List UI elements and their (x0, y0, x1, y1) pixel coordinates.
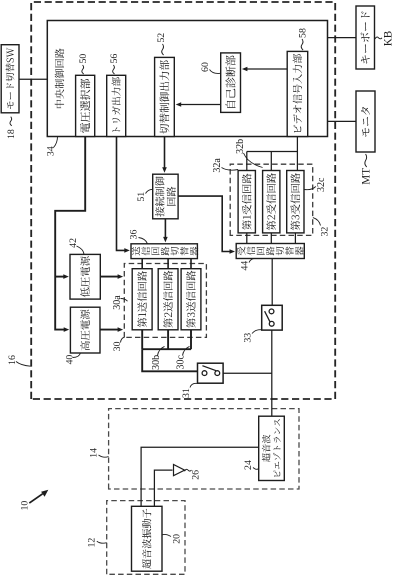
tilde 58 (301, 39, 303, 50)
wire connection-control to RX switcher (178, 196, 232, 251)
tilde 52 (162, 44, 164, 55)
leader 31 (190, 383, 197, 387)
switch 33 box (262, 305, 283, 330)
svg-text:60: 60 (200, 62, 211, 72)
leader 30a (121, 299, 128, 302)
wire video-input to self-diagnosis (245, 68, 288, 70)
dashed box 32 (reception circuits group) (230, 164, 313, 235)
arrowhead into TX switcher top edge (124, 248, 130, 253)
svg-text:32c: 32c (316, 177, 327, 192)
label 接続制御回路 line2 (166, 187, 175, 206)
wire power bus branch to low-voltage supply (55, 276, 66, 278)
wire TX circuit 2 output (167, 330, 169, 349)
TX circuit 3 box 30c (181, 269, 201, 330)
arrowhead into RX switcher top edge (230, 249, 236, 254)
wire vibrator echo output (154, 470, 172, 506)
leader 24 (253, 468, 259, 470)
label 第3送信回路 (TX circuit 3) (186, 271, 196, 328)
label 第3受信回路 (RX circuit 3) (290, 173, 300, 230)
label 受信回路切替器 (RX circuit switcher, vertical) (237, 247, 246, 256)
svg-text:10: 10 (19, 501, 30, 511)
leader 36 (139, 238, 148, 244)
high voltage supply box 40 (70, 307, 100, 353)
label 接続制御回路 line1 (155, 177, 164, 217)
switch 31 box (198, 363, 224, 383)
leader 12 (97, 541, 107, 543)
svg-text:12: 12 (87, 538, 98, 548)
wire RX trunk branch to RX circuit 3 (296, 152, 298, 171)
wire RX trunk branch to RX circuit 1 (246, 152, 248, 171)
RX circuit switcher box 44 (236, 244, 304, 259)
svg-text:30a: 30a (112, 295, 123, 310)
label キーボード (keyboard) (361, 12, 370, 64)
dashed box 12 (probe unit) (107, 501, 185, 575)
label 第1受信回路 (RX circuit 1) (242, 174, 252, 230)
svg-text:20: 20 (172, 534, 183, 544)
wire self-diagnosis to switch-control-output (179, 104, 221, 106)
label 切替制御出力部 (switch control output) (159, 60, 169, 134)
output arrow 26 (open triangle) (174, 465, 185, 476)
label 低圧電源 (low voltage supply) (80, 256, 90, 297)
arrowhead into dashed box 30 (from low-V) (118, 274, 124, 279)
wire switch 33 to piezo transformer (271, 330, 273, 416)
wire RX circuit 2 to RX switcher (270, 233, 272, 244)
svg-text:16: 16 (7, 355, 18, 365)
wire switch 31 to probe line junction (223, 372, 272, 374)
label 超音波 (ultrasonic) line1 (262, 435, 271, 462)
svg-text:50: 50 (78, 54, 89, 64)
leader 30 (121, 337, 125, 342)
leader 60 (210, 70, 221, 74)
wire switch-control-output to connection-control (164, 137, 166, 171)
ultrasonic piezo transformer box 24 (259, 416, 285, 480)
leader 32c (305, 187, 316, 190)
wire TX output connector (142, 348, 191, 350)
leader 40 (73, 353, 81, 358)
dashed box 30 (transmission circuits group) (124, 264, 206, 338)
leader 32 (313, 218, 321, 226)
label ピエゾトランス (piezo transformer) line2 (273, 419, 281, 477)
trigger output box 56 (107, 75, 126, 136)
TX circuit switcher box 36 (131, 244, 197, 259)
arrowhead into switch-control-output (176, 102, 182, 107)
monitor box MT (356, 91, 375, 152)
arrowhead into high-voltage supply top (64, 327, 69, 332)
wire RX switcher to switch 33 (271, 259, 273, 306)
wire video-input to RX circuits trunk (247, 137, 298, 152)
svg-text:14: 14 (89, 448, 100, 458)
connection control circuit box 51 (153, 174, 178, 219)
leader 16 (16, 362, 31, 367)
video signal input box 58 (287, 51, 308, 136)
keyboard box KB (356, 6, 375, 69)
svg-text:26: 26 (191, 470, 202, 480)
switch control output box 52 (155, 57, 175, 136)
tilde MT (365, 154, 367, 167)
label モニタ (monitor) (361, 107, 370, 137)
svg-text:32a: 32a (212, 158, 223, 173)
svg-text:30: 30 (112, 341, 123, 351)
svg-text:30c: 30c (176, 355, 187, 370)
TX circuit 1 box 30a (132, 269, 152, 330)
label 電圧選択部 (voltage selector) (80, 79, 90, 133)
svg-text:MT: MT (361, 168, 373, 185)
wire central control to keyboard (328, 37, 357, 39)
leader 30c (183, 346, 190, 355)
leader 32a (222, 168, 239, 171)
TX circuit 2 box 30b (158, 269, 178, 330)
figure arrow 10 (29, 494, 42, 503)
dashed box 16 (main unit) (31, 2, 335, 399)
tilde 50 (82, 65, 84, 74)
leader 20 (162, 534, 171, 536)
mode switch box 18 (1, 45, 19, 113)
low voltage supply box 42 (70, 254, 100, 299)
label 超音波振動子 (ultrasonic vibrator) (142, 509, 151, 569)
label 第2受信回路 (RX circuit 2) (266, 173, 276, 230)
svg-text:58: 58 (297, 28, 308, 38)
RX circuit 3 box 32c (287, 171, 304, 233)
wire TX outputs to switch 31 (142, 349, 197, 371)
wire TX switcher to TX circuit 1 (141, 259, 143, 269)
label 送信回路切替器 (TX circuit switcher, vertical) (132, 247, 141, 256)
leader 42 (77, 246, 85, 254)
wire connection-control to TX switcher (164, 219, 166, 240)
wire high-voltage supply to TX group (100, 329, 121, 331)
switch 33 contacts and blade (269, 309, 274, 314)
wire mode-SW to central control (19, 78, 47, 80)
tilde 26 (185, 469, 192, 471)
label トリガ出力部 (trigger output) (112, 77, 121, 132)
wire piezo transformer to vibrator (141, 447, 259, 506)
svg-text:33: 33 (243, 333, 254, 343)
wire voltage-select power bus (55, 137, 85, 330)
leader 51 (146, 189, 153, 193)
wire TX switcher to TX circuit 2 (167, 259, 169, 269)
leader 32b (244, 153, 263, 168)
svg-text:24: 24 (243, 460, 254, 470)
leader 14 (99, 455, 109, 457)
svg-text:34: 34 (46, 146, 57, 156)
leader 44 (249, 258, 256, 262)
svg-text:40: 40 (65, 355, 76, 365)
svg-text:52: 52 (156, 33, 167, 43)
label モード切替SW (mode switch) (6, 48, 15, 109)
arrowhead into connection-control right edge (162, 167, 167, 173)
switch 31 contacts and blade (202, 371, 207, 376)
wire central control to monitor (328, 120, 357, 122)
wire TX circuit 1 output (141, 330, 143, 349)
ultrasonic vibrator box 20 (132, 506, 163, 571)
tilde 18 (10, 117, 12, 126)
svg-text:32: 32 (319, 227, 330, 237)
label 自己診断部 (self-diagnosis) (225, 55, 235, 107)
leader 34 (54, 137, 58, 148)
label 第1送信回路 (TX circuit 1) (137, 271, 147, 327)
leader 33 (252, 330, 262, 334)
central control circuit box 34 (47, 21, 327, 137)
RX circuit 1 box 32a (238, 171, 255, 233)
label 第2送信回路 (TX circuit 2) (163, 271, 173, 328)
dashed box 14 (probe connector unit) (109, 409, 299, 489)
self-diagnosis box 60 (221, 53, 241, 112)
wire RX circuit 1 to RX switcher (246, 233, 248, 244)
arrowhead into low-voltage supply top (63, 274, 69, 279)
arrowhead into TX switcher right edge (163, 237, 168, 243)
arrowhead into dashed box 30 (from high-V) (118, 327, 124, 332)
voltage selector box 50 (76, 75, 95, 136)
wire TX circuit 3 output (190, 330, 192, 349)
label ビデオ信号入力部 (video signal input) (293, 54, 302, 133)
wire TX switcher to TX circuit 3 (190, 259, 192, 269)
svg-text:32b: 32b (235, 139, 246, 154)
svg-text:56: 56 (109, 54, 120, 64)
svg-text:36: 36 (129, 230, 140, 240)
RX circuit 2 box 32b (263, 171, 280, 233)
wire RX circuit 3 to RX switcher (294, 233, 296, 244)
tilde 56 (113, 65, 115, 74)
arrowhead into self-diagnosis (242, 67, 248, 72)
wire low-voltage supply to TX group (100, 276, 120, 278)
tilde KB (375, 37, 382, 39)
svg-text:30b: 30b (151, 355, 162, 370)
svg-text:31: 31 (181, 388, 192, 398)
label 中央制御回路 (central control circuit) (55, 48, 64, 108)
svg-text:18: 18 (6, 129, 17, 139)
leader 30b (158, 346, 165, 355)
svg-text:KB: KB (382, 31, 393, 47)
wire trigger-output to TX switcher (117, 137, 128, 251)
wire RX trunk branch to RX circuit 2 (270, 152, 272, 171)
label 高圧電源 (high voltage supply) (80, 310, 90, 351)
